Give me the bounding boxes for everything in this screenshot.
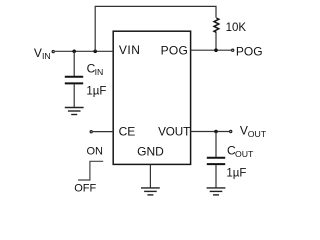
svg-text:V: V <box>240 123 248 137</box>
svg-text:VIN: VIN <box>119 43 141 57</box>
ground for C_OUT <box>207 188 226 195</box>
node COUT tap junction <box>214 130 218 134</box>
ground for C_IN <box>65 108 84 115</box>
svg-text:VOUT: VOUT <box>158 125 190 138</box>
capacitor C_IN bottom lead <box>73 84 75 107</box>
wire ON/OFF step waveform <box>78 161 103 180</box>
capacitor C_OUT plates <box>207 157 225 159</box>
op-amp U1 regulator box <box>113 31 190 164</box>
svg-text:IN: IN <box>95 67 104 77</box>
svg-text:OUT: OUT <box>235 149 254 159</box>
ground for GND pin <box>141 188 160 195</box>
svg-text:POG: POG <box>236 44 263 58</box>
svg-text:GND: GND <box>137 145 164 159</box>
svg-text:CE: CE <box>119 125 136 139</box>
capacitor C_IN plates <box>65 76 83 78</box>
node VOUT output terminal <box>230 130 232 132</box>
capacitor C_OUT top lead <box>215 132 217 157</box>
node resistor/POG junction <box>214 48 218 52</box>
wire POG pin to terminal <box>191 49 231 51</box>
svg-text:V: V <box>34 46 42 60</box>
wire CE terminal to box <box>93 131 113 133</box>
node CE input terminal <box>90 131 92 133</box>
svg-text:1µF: 1µF <box>86 86 106 98</box>
svg-text:OUT: OUT <box>248 129 267 139</box>
svg-text:OFF: OFF <box>74 183 96 195</box>
svg-text:1µF: 1µF <box>226 168 246 180</box>
node POG output terminal <box>232 49 234 51</box>
wire VIN input to box <box>55 50 113 52</box>
svg-text:10K: 10K <box>226 22 247 34</box>
wire resistor bottom to POG wire <box>215 32 217 50</box>
svg-text:ON: ON <box>87 145 104 157</box>
wire VIN node up and across to resistor <box>95 6 216 51</box>
wire VOUT pin to terminal <box>191 131 229 133</box>
capacitor C_IN top lead <box>73 51 75 76</box>
wire GND pin lead <box>149 164 151 188</box>
resistor R1 zigzag <box>214 18 219 32</box>
node VIN input terminal <box>52 51 54 53</box>
svg-text:IN: IN <box>42 51 51 61</box>
node CIN tap junction <box>72 50 76 54</box>
svg-text:POG: POG <box>161 43 189 57</box>
capacitor C_OUT bottom lead <box>215 165 217 188</box>
node top-wire tap junction <box>93 50 97 54</box>
